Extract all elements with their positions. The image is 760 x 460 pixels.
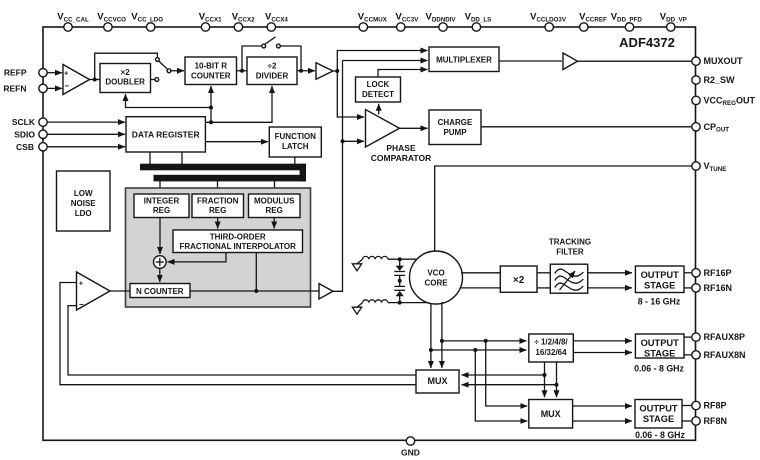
svg-text:FRACTION: FRACTION (197, 197, 239, 206)
svg-text:RF16N: RF16N (704, 283, 733, 293)
svg-text:PUMP: PUMP (443, 128, 467, 137)
svg-text:RF16P: RF16P (704, 268, 732, 278)
svg-text:MULTIPLEXER: MULTIPLEXER (436, 56, 492, 65)
svg-text:SCLK: SCLK (12, 117, 36, 127)
svg-text:+: + (79, 279, 84, 288)
svg-text:LATCH: LATCH (282, 142, 309, 151)
svg-text:MUX: MUX (428, 376, 448, 386)
svg-text:DETECT: DETECT (362, 90, 394, 99)
svg-text:REFP: REFP (4, 68, 27, 78)
svg-text:×2: ×2 (513, 275, 525, 286)
svg-text:COMPARATOR: COMPARATOR (371, 153, 431, 163)
svg-text:RFAUX8N: RFAUX8N (704, 350, 746, 360)
svg-text:−: − (65, 82, 70, 91)
svg-text:MUXOUT: MUXOUT (704, 56, 743, 66)
svg-text:OUTPUT: OUTPUT (639, 404, 678, 414)
svg-text:PHASE: PHASE (386, 143, 416, 153)
svg-text:10-BIT R: 10-BIT R (195, 62, 228, 71)
svg-text:REG: REG (153, 206, 170, 215)
svg-text:RFAUX8P: RFAUX8P (704, 332, 746, 342)
svg-text:LOW: LOW (74, 189, 93, 198)
svg-text:0.06 - 8 GHz: 0.06 - 8 GHz (635, 430, 685, 440)
svg-text:OUTPUT: OUTPUT (641, 338, 680, 348)
svg-text:LDO: LDO (75, 209, 92, 218)
svg-text:VCO: VCO (427, 269, 444, 278)
svg-text:N COUNTER: N COUNTER (136, 287, 184, 296)
svg-text:ADF4372: ADF4372 (619, 35, 675, 50)
svg-text:÷2: ÷2 (268, 62, 277, 71)
svg-text:+: + (64, 68, 69, 77)
svg-text:DIVIDER: DIVIDER (256, 72, 289, 81)
svg-text:CORE: CORE (424, 279, 448, 288)
svg-text:THIRD-ORDER: THIRD-ORDER (210, 233, 266, 242)
svg-text:−: − (79, 300, 84, 309)
svg-text:×2: ×2 (121, 68, 131, 77)
svg-text:GND: GND (401, 448, 420, 458)
svg-text:RF8N: RF8N (704, 416, 728, 426)
svg-text:MODULUS: MODULUS (254, 197, 295, 206)
svg-text:INTEGER: INTEGER (144, 197, 180, 206)
svg-text:COUNTER: COUNTER (191, 72, 231, 81)
svg-text:DATA REGISTER: DATA REGISTER (132, 130, 200, 140)
svg-text:R2_SW: R2_SW (704, 75, 736, 85)
svg-text:CHARGE: CHARGE (438, 118, 473, 127)
svg-text:SDIO: SDIO (14, 129, 35, 139)
svg-text:STAGE: STAGE (644, 349, 675, 359)
svg-text:REG: REG (209, 206, 226, 215)
svg-text:FILTER: FILTER (556, 248, 584, 257)
svg-text:8 - 16 GHz: 8 - 16 GHz (638, 297, 681, 307)
svg-text:RF8P: RF8P (704, 401, 727, 411)
svg-text:TRACKING: TRACKING (549, 238, 591, 247)
svg-text:DOUBLER: DOUBLER (105, 78, 145, 87)
svg-text:CSB: CSB (16, 142, 34, 152)
svg-text:STAGE: STAGE (643, 414, 674, 424)
svg-text:OUTPUT: OUTPUT (641, 270, 680, 280)
svg-text:STAGE: STAGE (644, 281, 675, 291)
svg-text:16/32/64: 16/32/64 (535, 348, 567, 357)
svg-text:FRACTIONAL INTERPOLATOR: FRACTIONAL INTERPOLATOR (179, 242, 296, 251)
svg-text:MUX: MUX (541, 409, 561, 419)
svg-text:NOISE: NOISE (71, 199, 97, 208)
svg-text:FUNCTION: FUNCTION (275, 132, 317, 141)
svg-text:÷ 1/2/4/8/: ÷ 1/2/4/8/ (534, 338, 568, 347)
svg-text:0.06 - 8 GHz: 0.06 - 8 GHz (634, 364, 684, 374)
svg-text:REG: REG (266, 206, 283, 215)
svg-text:LOCK: LOCK (367, 80, 390, 89)
svg-text:REFN: REFN (3, 83, 26, 93)
